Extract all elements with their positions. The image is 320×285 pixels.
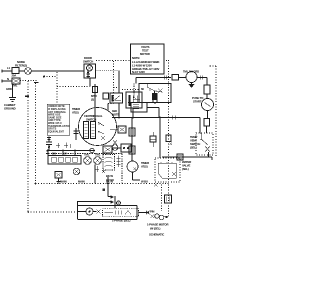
ground triangle under timer motor: [189, 84, 195, 88]
svg-text:60: 60: [141, 87, 144, 91]
wire stubs into strip: [63, 151, 75, 156]
timer motor M2: [186, 72, 197, 83]
left bar: [77, 201, 79, 220]
motor winding 2: [91, 122, 96, 139]
connector X on border: [154, 183, 158, 187]
capacitor lead by text block: [75, 128, 77, 140]
right dashed border: [215, 66, 217, 158]
svg-text:NOTE: NOTE: [112, 113, 119, 117]
relay component mid: [150, 136, 156, 142]
svg-text:TML: TML: [84, 153, 90, 157]
svg-text:(SEL): (SEL): [182, 167, 189, 171]
labels lower right: [106, 174, 114, 182]
heater loop box: [78, 206, 137, 220]
timer internal contacts: [147, 84, 162, 92]
svg-text:EQUIVALENT: EQUIVALENT: [48, 130, 64, 133]
svg-text:1-PHASE (SEL): 1-PHASE (SEL): [112, 219, 130, 223]
water temp switch body: [158, 163, 176, 178]
motor contacts: [98, 122, 104, 134]
console bottom dashed border: [57, 183, 169, 185]
svg-text:MAIN: MAIN: [78, 180, 85, 184]
dashed drop x122: [121, 154, 123, 184]
timer block T1: [135, 78, 137, 84]
connector box on motor feed: [93, 87, 98, 93]
capacitor C1: [46, 142, 52, 145]
fuse F1: [12, 68, 19, 74]
wire lower bus y150: [48, 150, 95, 152]
svg-text:GRD: GRD: [6, 87, 12, 91]
svg-text:GROUND: GROUND: [4, 107, 16, 111]
dashed corner top right: [210, 65, 216, 67]
svg-text:FILTER(S): FILTER(S): [15, 64, 27, 68]
svg-text:TML: TML: [95, 153, 101, 157]
connector box under motor: [103, 146, 112, 153]
cabinet dashed border bottom: [28, 211, 75, 213]
console dashed border top: [96, 60, 169, 62]
interlock switch box: [110, 93, 123, 103]
label DOOR SWITCH: [83, 56, 93, 64]
info box VOLTS TEST: [131, 44, 165, 74]
cabinet dashed border left: [27, 81, 29, 212]
wire N line: [2, 80, 12, 82]
svg-text:SWITCH: SWITCH: [83, 60, 93, 64]
wire to motor cluster: [139, 212, 150, 214]
svg-text:BK: BK: [52, 152, 56, 156]
arrow connector row B: [78, 201, 111, 203]
node N: [7, 77, 9, 81]
dashed link to console: [44, 76, 57, 78]
wire L1 line: [2, 70, 84, 72]
label BK wire note: [112, 109, 119, 117]
svg-text:L1: L1: [7, 66, 11, 70]
svg-text:AT(S): AT(S): [72, 111, 79, 115]
tick pair on bus: [173, 116, 176, 120]
terminal strip block: [48, 156, 81, 165]
wire marks lower: [95, 166, 105, 173]
label PUSH TO START: [192, 96, 204, 104]
svg-text:20A: 20A: [12, 74, 17, 78]
junction dot: [20, 70, 22, 72]
labels above dashed border: [60, 180, 113, 184]
protector circle C: [73, 168, 80, 175]
wire below solenoid: [133, 172, 141, 180]
warning text block: [47, 104, 70, 135]
component on bus: [177, 154, 183, 160]
earth mark: [57, 178, 61, 183]
wire x108 drop below border: [107, 177, 109, 197]
wire door sw drop: [89, 79, 91, 87]
door switch S1: [84, 64, 96, 78]
dashed wire to lid switch: [122, 89, 140, 91]
svg-text:N: N: [7, 77, 9, 81]
svg-text:BK W: BK W: [106, 180, 113, 184]
wire x95 drop: [94, 165, 96, 184]
dashed drop from water temp switch pin 1: [161, 185, 163, 212]
water valve solenoid: [127, 161, 138, 172]
svg-text:(2): (2): [91, 98, 94, 102]
motor winding 1: [84, 122, 89, 139]
connector X: [113, 140, 117, 145]
capacitor symbol: [172, 75, 179, 81]
wire down from node 119: [118, 71, 120, 118]
dashed wire into timer: [128, 102, 131, 104]
drive motor M1: [79, 108, 117, 146]
inner dashed border: [35, 83, 37, 183]
connector block 2dot: [121, 144, 131, 152]
wire N dashed to cabinet: [20, 80, 37, 82]
resistor R1: [204, 85, 210, 94]
tick on cabinet border: [25, 95, 29, 97]
svg-text:N-GY 120V: N-GY 120V: [132, 70, 145, 74]
connector box B1: [129, 128, 135, 136]
switch dashed box: [103, 155, 115, 171]
label motor text: [147, 223, 168, 237]
svg-text:P/N: P/N: [150, 210, 154, 214]
wire to motor top: [95, 84, 108, 121]
svg-text:W BU: W BU: [141, 180, 148, 184]
dashed drop from water temp switch pin 2: [168, 185, 170, 217]
inner dashed corner blob: [34, 82, 39, 84]
plug indicator circle: [117, 201, 121, 205]
pilot circle: [112, 145, 118, 151]
svg-text:AT(S): AT(S): [141, 165, 148, 169]
node L1: [7, 66, 11, 70]
water temp switch dashed box: [155, 158, 180, 182]
tick pair left: [164, 76, 167, 80]
socket bar: [114, 196, 116, 208]
lid switch box: [126, 92, 142, 108]
connector X: [97, 210, 101, 214]
wire: [179, 77, 187, 79]
plug prong L1: [1, 70, 3, 73]
svg-text:MOTOR: MOTOR: [140, 52, 150, 56]
arrow connector row A: [108, 196, 111, 198]
heater dashed box: [103, 209, 139, 217]
wire drop x132 water valve: [131, 118, 133, 162]
wire: [207, 111, 209, 119]
motor coil loops: [155, 214, 159, 218]
tick pair: [200, 76, 203, 80]
wire right bus: [162, 157, 212, 160]
protector circle B: [94, 157, 102, 165]
noise suppressor circle: [25, 68, 32, 75]
tick symbol below block: [47, 138, 51, 140]
label WATER VALVE: [182, 160, 191, 171]
svg-text:W/ (SEL): W/ (SEL): [150, 227, 161, 231]
main wire bus y117: [112, 118, 200, 134]
start switch circle: [202, 99, 214, 111]
temp switch contacts: [201, 133, 208, 145]
connector X pair: [146, 211, 154, 218]
wire from door switch to node: [96, 70, 120, 72]
wire lid switch down: [132, 108, 134, 117]
ground symbol chassis: [9, 98, 16, 102]
door switch contacts: [87, 71, 91, 78]
terminal block N: [12, 78, 20, 84]
dashed wire y153.5: [46, 153, 122, 155]
connector box on dashed: [103, 93, 109, 99]
wire ground drop: [12, 84, 14, 97]
connector box on drop: [165, 195, 172, 203]
svg-text:START: START: [193, 100, 202, 104]
svg-text:SCHEMATIC: SCHEMATIC: [149, 233, 164, 237]
svg-text:MAIN: MAIN: [60, 180, 67, 184]
svg-text:SWITCH: SWITCH: [86, 118, 96, 122]
dashed link: [108, 61, 119, 104]
label TIMER AT: [72, 107, 80, 115]
console dashed segment: [57, 86, 90, 88]
motor bottom contact marks: [56, 143, 70, 149]
component ticks: [117, 156, 121, 168]
protector circle A: [84, 157, 92, 165]
label TIMER MOTOR: [183, 70, 199, 74]
connector box: [204, 119, 210, 127]
console right dashed border: [168, 60, 170, 184]
svg-text:W: W: [64, 152, 67, 156]
svg-text:(SEL): (SEL): [190, 146, 197, 150]
indicator lamp L: [86, 208, 93, 215]
label NOISE FILTER: [15, 60, 27, 68]
label TEMP VENT SWITCH: [190, 135, 200, 150]
wire drop x160: [159, 118, 161, 159]
fuse on console edge: [166, 135, 171, 142]
wire top-right feed: [136, 77, 171, 79]
connector box B2: [129, 146, 135, 154]
label GRD: [6, 87, 12, 91]
console dashed border left: [56, 72, 58, 103]
relay box lower: [55, 172, 62, 179]
wire: [197, 78, 207, 86]
timer sub box: [131, 103, 147, 113]
temp switch dashed box: [196, 133, 213, 155]
start relay box: [118, 126, 126, 133]
